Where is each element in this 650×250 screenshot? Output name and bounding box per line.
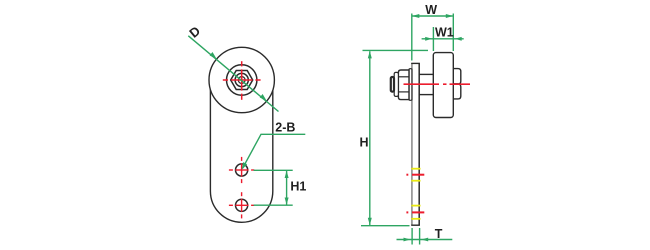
nut lower lobe (side view)	[453, 84, 461, 99]
W / W1 extension line right	[452, 14, 454, 52]
side plate right edge	[418, 63, 420, 225]
lower hole center line vertical (red)	[241, 192, 243, 218]
H1 arrowhead up	[285, 171, 289, 178]
upper mounting hole	[236, 164, 248, 176]
side plate bottom edge	[411, 224, 420, 226]
dimension D arrowhead upper	[210, 52, 217, 59]
axle hole circle	[238, 77, 245, 84]
nut upper lobe (side view)	[453, 69, 461, 84]
bushing bottom line	[419, 94, 433, 96]
axle center line (red)	[404, 83, 471, 85]
side plate top edge	[411, 62, 420, 64]
bolt head facet line upper	[398, 76, 409, 78]
H arrowhead up	[368, 51, 372, 58]
H1 upper extension line	[254, 169, 293, 171]
svg-text:W1: W1	[435, 26, 454, 40]
2-B leader line	[243, 134, 306, 168]
plate mark group2 red dash	[406, 211, 424, 213]
hub center line vertical (red)	[241, 61, 243, 100]
bolt head facet line lower	[398, 91, 409, 93]
H top extension line	[363, 49, 429, 51]
svg-text:H1: H1	[290, 179, 306, 193]
H1 dimension line	[286, 171, 288, 205]
plate mark group2 yellow upper	[411, 205, 420, 207]
plate mark group1 red dash	[406, 174, 424, 176]
H dimension line	[369, 51, 371, 225]
svg-text:H: H	[360, 135, 369, 149]
dimension D arrowhead lower	[260, 94, 267, 101]
bolt head (side view)	[398, 70, 409, 100]
thread circle	[235, 73, 248, 86]
lower hole center line horizontal (red)	[229, 204, 254, 206]
hex nut (front view)	[231, 71, 253, 90]
W1 dimension line with arrowheads	[422, 37, 464, 41]
hub circle	[227, 65, 257, 95]
W dimension line	[413, 15, 453, 17]
plate mark group1 yellow lower	[411, 180, 420, 182]
W arrowhead right	[446, 14, 453, 18]
T extension line left	[411, 228, 413, 245]
svg-text:W: W	[425, 3, 437, 17]
plate outline (front view, stadium body)	[210, 88, 272, 222]
hub center line horizontal (red)	[223, 79, 261, 81]
W extension line left	[411, 14, 413, 61]
plate mark group1 yellow upper	[411, 168, 420, 170]
svg-text:T: T	[435, 227, 443, 241]
wheel (side view)	[433, 53, 453, 118]
H bottom extension line	[361, 225, 410, 227]
2-B leader arrowhead	[242, 162, 247, 170]
T dimension line with arrowheads	[397, 238, 453, 242]
washer (left of plate)	[409, 69, 412, 101]
upper hole center line horizontal (red)	[229, 169, 254, 171]
svg-text:2-B: 2-B	[275, 121, 295, 135]
T extension line right	[419, 228, 421, 245]
side plate left edge (gray)	[411, 63, 413, 225]
dimension D leader line	[188, 36, 278, 112]
bushing top line	[419, 73, 433, 75]
plate mark group2 yellow lower	[411, 218, 420, 220]
H1 arrowhead down	[285, 198, 289, 205]
H arrowhead down	[368, 218, 372, 225]
upper hole center line vertical (red)	[241, 157, 243, 183]
W arrowhead left	[412, 14, 419, 18]
bolt end cap (dark)	[391, 77, 394, 92]
H1 lower extension line	[254, 204, 293, 206]
lower mounting hole	[236, 199, 248, 211]
roller outer circle	[209, 47, 274, 112]
W1 extension line left	[432, 27, 434, 51]
bolt flange	[394, 72, 398, 96]
